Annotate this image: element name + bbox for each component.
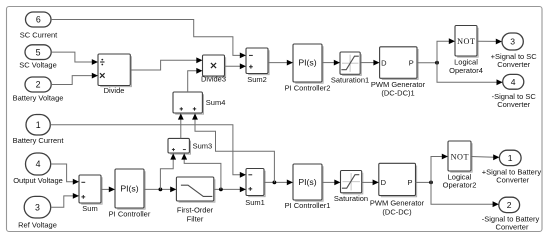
wire junction to Logical Operator2 [431,154,448,183]
svg-text:4: 4 [511,77,516,87]
svg-text:Ref Voltage: Ref Voltage [18,220,57,229]
svg-text:PI Controller1: PI Controller1 [285,201,331,210]
svg-text:Divide: Divide [104,86,125,95]
svg-text:PI Controller2: PI Controller2 [285,83,331,92]
output port 1 (+Signal to Battery Converter) [482,150,542,184]
block Sum2 [246,48,269,84]
svg-text:Converter: Converter [496,223,529,232]
wire Sum2 output to PI Controller2 [268,60,293,66]
wire junction to Logical Operator4 [437,38,455,62]
svg-text:Sum1: Sum1 [245,198,265,207]
svg-text:Operator4: Operator4 [449,66,483,75]
op NOT Logical Operator4 [449,26,483,75]
block Sum4 [173,92,225,114]
svg-text:4: 4 [36,159,41,169]
svg-text:1: 1 [36,120,41,130]
svg-text:P: P [409,59,414,68]
block Sum3 [168,138,212,154]
svg-text:(DC-DC)1: (DC-DC)1 [381,89,414,98]
block Sum [79,175,102,213]
block PWM Generator (DC-DC)1 [371,47,426,98]
svg-text:PI(s): PI(s) [298,57,316,67]
block Divide [98,54,131,95]
svg-text:SC Voltage: SC Voltage [19,61,57,70]
wire Sum3 output to Sum4 input1 [178,113,184,138]
svg-text:PI Controller: PI Controller [109,210,151,219]
svg-text:Saturation1: Saturation1 [331,75,369,84]
svg-text:Filter: Filter [187,215,204,224]
block PWM Generator (DC-DC) [370,163,425,216]
wire PWM Generator output with junction [416,181,433,185]
block Sum1 [245,169,265,208]
wire Saturation to PWM Generator [362,180,379,186]
wire filter output to Sum1 input2 with junction [214,187,246,193]
wire Logical Operator4 to port3 SC [477,39,502,45]
svg-text:2: 2 [507,200,512,210]
svg-text:Sum3: Sum3 [193,141,213,150]
wire PI Controller1 to Saturation [322,180,341,186]
wire Sum1 output to PI Controller1 with junction [264,180,293,186]
wire Saturation1 to PWM Generator1 [360,60,379,66]
wire junction to Sum4 input2 [192,113,274,182]
svg-text:5: 5 [36,47,41,57]
svg-text:(DC-DC): (DC-DC) [382,207,412,216]
wire junction to port2 battery [431,182,499,207]
wire PI Controller2 to Saturation1 [322,60,340,66]
svg-text:D: D [381,59,387,68]
input port 5 (SC Voltage) [19,45,57,70]
svg-text:Sum: Sum [82,204,97,213]
wire port1 to Sum1 input1 [50,125,246,178]
svg-text:3: 3 [35,203,40,213]
block Saturation1 [331,52,369,84]
wire Logical Operator2 to port1 battery [471,154,499,160]
svg-text:Converter: Converter [496,175,529,184]
svg-text:PI(s): PI(s) [298,177,316,187]
input port 3 (Ref Voltage) [18,196,57,229]
svg-text:SC Current: SC Current [20,30,58,39]
svg-text:NOT: NOT [457,37,475,46]
block PI Controller [109,169,151,219]
wire junction to Sum3 input1 [160,153,176,189]
block PI Controller1 [285,164,331,210]
svg-text:NOT: NOT [451,152,469,161]
input port 1 (Battery Current) [13,115,65,145]
wire Divide output to Divide3 input1 [130,57,202,70]
svg-text:P: P [407,178,412,187]
block PI Controller2 [285,44,331,92]
output port 2 (-Signal to Battery Converter) [482,197,540,231]
output port 4 (-Signal to SC Converter) [492,74,537,109]
wire PWM Generator1 output with junction [417,61,439,65]
svg-text:Saturation: Saturation [334,194,368,203]
svg-text:D: D [381,178,387,187]
wire port2 to Divide input2 [51,73,98,85]
svg-text:Sum4: Sum4 [206,98,226,107]
svg-text:Battery Current: Battery Current [13,136,65,145]
svg-text:2: 2 [36,80,41,90]
svg-text:Battery Voltage: Battery Voltage [13,93,64,102]
svg-text:Converter: Converter [497,60,530,69]
wire Sum output to PI Controller [101,187,115,193]
wire port5 to Divide input1 [51,52,98,65]
wire junction to port4 SC [437,63,503,85]
wire PI Controller output to filter with junction [144,187,176,193]
svg-text:Operator2: Operator2 [443,181,477,190]
svg-text:PWM Generator: PWM Generator [370,199,425,208]
input port 2 (Battery Voltage) [13,77,64,102]
block Saturation [334,171,368,203]
wire port3 to Sum input2 [51,193,79,207]
svg-text:Sum2: Sum2 [247,75,267,84]
input port 6 (SC Current) [20,12,58,39]
op NOT Logical Operator2 [443,141,477,190]
output port 3 (+Signal to SC Converter) [491,33,538,69]
wire port6 to Sum2 input1 [51,20,246,59]
block Divide3 [201,55,226,84]
svg-text:3: 3 [510,37,515,47]
svg-text:Output Voltage: Output Voltage [13,176,63,185]
svg-text:6: 6 [36,15,41,25]
svg-text:1: 1 [508,153,513,163]
input port 4 (Output Voltage) [13,153,63,185]
svg-text:PI(s): PI(s) [120,183,138,193]
wire port4 to Sum input1 [51,164,79,185]
wire Sum4 output to Divide3 input2 [188,68,203,92]
svg-text:Divide3: Divide3 [201,75,226,84]
wire junction to Sum3 input2 [181,153,221,189]
svg-text:First-Order: First-Order [177,206,214,215]
svg-text:Converter: Converter [497,100,530,109]
block First-Order Filter [176,177,215,224]
wire Divide3 output to Sum2 input2 [225,63,247,69]
